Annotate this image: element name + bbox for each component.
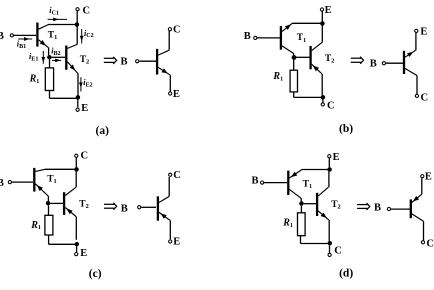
panel (a) bottom wire to E junction <box>50 97 78 99</box>
svg-text:iB2: iB2 <box>51 47 60 57</box>
node E junction (b) <box>320 21 325 26</box>
transistor T2 (d) collector diagonal <box>318 187 328 196</box>
svg-text:R1: R1 <box>282 218 293 229</box>
svg-text:(d): (d) <box>339 267 353 279</box>
equivalence arrow (d) <box>357 204 367 206</box>
svg-text:iE1: iE1 <box>29 52 38 62</box>
equivalent transistor (c) collector diagonal <box>159 196 169 202</box>
panel (c) wire junction to E terminal <box>76 247 78 253</box>
panel (a) current arrow iE1 <box>42 51 44 64</box>
equivalent transistor (d) base wire <box>391 208 410 210</box>
svg-text:E: E <box>420 26 427 37</box>
equivalent transistor (c) terminal B circle <box>138 206 141 209</box>
node E junction (a) <box>76 95 81 100</box>
resistor R1 (d) body <box>298 213 306 236</box>
panel (b) terminal C circle <box>321 103 324 106</box>
panel (d) wire E junction to T2 collector <box>328 172 330 188</box>
panel (b) bottom wire to C junction <box>294 96 323 98</box>
resistor R1 (a) body <box>45 68 53 91</box>
panel (c) wire T2 emitter to E junction <box>75 217 77 240</box>
equivalent transistor (d) emitter diagonal with arrow <box>412 194 422 202</box>
equivalent transistor (a) terminal E circle <box>169 92 172 95</box>
equivalent transistor (b) emitter diagonal with arrow <box>405 50 416 57</box>
equivalent transistor (a) base wire <box>139 60 156 62</box>
equivalent transistor (a) emitter diagonal with arrow <box>158 67 170 75</box>
equivalent transistor (b) base wire <box>386 62 403 64</box>
svg-text:E: E <box>80 248 87 259</box>
svg-text:T2: T2 <box>325 54 335 65</box>
svg-text:R1: R1 <box>30 220 41 231</box>
panel (c) wire node to T2 base <box>50 202 63 204</box>
svg-text:T2: T2 <box>80 55 90 66</box>
panel (c) wire C junction to T2 collector <box>75 172 77 188</box>
panel (c) wire T1 emitter to node <box>47 196 49 201</box>
svg-text:C: C <box>81 150 89 161</box>
svg-text:C: C <box>426 238 434 249</box>
svg-text:E: E <box>173 237 180 248</box>
svg-text:C: C <box>421 92 429 103</box>
svg-text:C: C <box>83 5 91 16</box>
node A (b) junction dot <box>292 55 297 60</box>
transistor T2 (c) emitter diagonal with arrow <box>65 207 76 216</box>
panel (b) wire T2 emitter to C junction <box>321 74 323 95</box>
svg-text:B: B <box>244 31 251 42</box>
transistor T1 (b) emitter diagonal with arrow <box>282 23 292 31</box>
transistor T2 (a) emitter diagonal with arrow <box>67 62 78 74</box>
equivalent transistor (b) terminal B circle <box>382 62 385 65</box>
transistor T2 (d) emitter diagonal with arrow <box>318 211 329 220</box>
transistor T1 (c) emitter diagonal with arrow <box>35 184 48 196</box>
svg-text:iB1: iB1 <box>17 40 26 50</box>
panel (d) top wire to E junction <box>302 169 330 171</box>
equivalent transistor (a) terminal B circle <box>136 60 139 63</box>
panel (d) bottom wire to C junction <box>301 243 330 245</box>
transistor T1 (a) collector diagonal <box>39 25 49 30</box>
svg-text:C: C <box>334 246 342 257</box>
panel (a) current arrow iB2 <box>52 59 61 61</box>
node A (c) junction dot <box>46 201 51 206</box>
svg-text:C: C <box>173 170 181 181</box>
transistor T1 (b) collector diagonal <box>282 46 293 53</box>
svg-text:B: B <box>374 203 381 214</box>
transistor T2 (a) base bar <box>65 46 67 70</box>
svg-text:iC1: iC1 <box>49 6 59 16</box>
transistor T2 (d) base bar <box>316 193 318 216</box>
equivalent transistor (c) emitter diagonal with arrow <box>159 212 171 220</box>
svg-text:T2: T2 <box>79 199 89 210</box>
transistor T2 (b) emitter diagonal with arrow <box>312 64 322 74</box>
node C junction (c) <box>74 167 79 172</box>
resistor R1 (b) body <box>290 70 297 92</box>
node E junction (d) <box>327 167 332 172</box>
transistor T1 (d) emitter diagonal with arrow <box>289 170 302 179</box>
panel (b) terminal E circle <box>320 8 323 11</box>
panel (d) wire T1 collector to node <box>300 198 302 201</box>
equivalent transistor (b) collector wire <box>416 76 418 95</box>
panel (a) current arrow iC2 <box>81 29 83 44</box>
panel (a) wire T2 emitter to E junction <box>77 74 79 96</box>
svg-text:E: E <box>333 152 340 163</box>
panel (a) top wire to C junction <box>48 24 77 26</box>
svg-text:T1: T1 <box>47 175 57 186</box>
panel (d) wire B to T1 base <box>264 182 287 184</box>
equivalent transistor (c) base wire <box>141 206 156 208</box>
panel (d) terminal C circle <box>328 253 331 256</box>
transistor T1 (d) base bar <box>287 171 289 195</box>
equivalent transistor (c) terminal C circle <box>169 173 172 176</box>
node E junction (c) <box>75 242 80 247</box>
equivalent transistor (a) collector diagonal <box>158 50 169 55</box>
equivalence arrow (c) <box>104 203 114 205</box>
svg-text:C: C <box>327 101 335 112</box>
transistor T1 (a) emitter diagonal with arrow <box>39 40 49 48</box>
svg-text:T1: T1 <box>48 31 58 42</box>
transistor T2 (a) collector diagonal <box>68 44 78 48</box>
panel (a) wire T1 emitter to node <box>48 47 50 55</box>
equivalent transistor (b) emitter wire <box>415 33 417 51</box>
node C junction (d) <box>328 241 333 246</box>
panel (d) wire junction to C terminal <box>329 245 331 253</box>
panel (b) wire node to T2 base <box>296 56 310 58</box>
svg-text:iE2: iE2 <box>83 78 92 88</box>
equivalent transistor (d) collector wire <box>423 221 425 240</box>
equivalence arrow (a) <box>104 57 114 59</box>
equivalent transistor (b) collector diagonal <box>405 68 417 75</box>
equivalent transistor (d) terminal B circle <box>387 207 390 210</box>
svg-text:E: E <box>425 171 432 182</box>
equivalent transistor (a) collector wire <box>168 31 170 50</box>
node C junction (b) <box>321 95 326 100</box>
panel (c) terminal B circle <box>8 181 11 184</box>
transistor T1 (a) base bar <box>36 23 38 47</box>
panel (b) wire junction to E terminal <box>321 11 323 21</box>
resistor R1 (a) bottom wire <box>49 91 51 99</box>
svg-text:C: C <box>173 24 181 35</box>
panel (b) wire E junction to T2 collector <box>321 26 323 43</box>
panel (a) terminal B circle <box>10 34 13 37</box>
svg-text:B: B <box>370 58 377 69</box>
svg-text:B: B <box>121 57 128 68</box>
panel (d) terminal E circle <box>328 155 331 158</box>
resistor R1 (c) bottom wire <box>48 235 50 244</box>
svg-text:(c): (c) <box>89 268 102 280</box>
resistor R1 (d) bottom wire <box>300 236 302 244</box>
panel (b) top wire to E junction <box>292 22 323 24</box>
equivalent transistor (d) base bar <box>410 199 412 218</box>
equivalent transistor (d) terminal E circle <box>421 175 424 178</box>
resistor R1 (b) top wire <box>293 59 295 70</box>
panel (a) current arrow iB1 <box>18 38 32 40</box>
svg-text:E: E <box>173 89 180 100</box>
resistor R1 (a) top wire <box>49 59 51 68</box>
svg-text:R1: R1 <box>29 74 40 85</box>
panel (b) wire junction to C terminal <box>322 100 324 103</box>
svg-text:B: B <box>121 203 128 214</box>
resistor R1 (c) body <box>45 215 53 235</box>
panel (a) terminal E circle <box>76 108 79 111</box>
svg-text:B: B <box>0 178 4 189</box>
svg-text:B: B <box>0 31 4 42</box>
resistor R1 (c) top wire <box>48 206 50 216</box>
equivalent transistor (d) collector diagonal <box>412 214 424 222</box>
equivalent transistor (d) terminal C circle <box>421 241 424 244</box>
equivalent transistor (a) terminal C circle <box>168 28 171 31</box>
panel (a) wire node to T2 base <box>52 56 66 58</box>
resistor R1 (d) top wire <box>300 206 302 213</box>
panel (c) terminal E circle <box>75 253 78 256</box>
equivalent transistor (b) base bar <box>403 51 405 74</box>
equivalent transistor (a) emitter wire <box>169 75 171 91</box>
panel (a) current arrow iE2 <box>80 77 82 91</box>
node A (d) junction dot <box>299 201 304 206</box>
svg-text:T1: T1 <box>303 180 313 191</box>
svg-text:E: E <box>325 5 332 16</box>
svg-text:(a): (a) <box>96 125 110 137</box>
svg-text:E: E <box>81 103 88 114</box>
panel (a) current arrow iC1 <box>48 18 67 20</box>
svg-text:R1: R1 <box>272 71 283 82</box>
svg-text:T1: T1 <box>297 33 307 44</box>
equivalent transistor (c) base bar <box>157 196 159 220</box>
panel (d) wire T2 emitter to C junction <box>328 220 330 241</box>
equivalent transistor (b) terminal C circle <box>415 94 418 97</box>
panel (c) wire B to T1 base <box>12 181 33 183</box>
transistor T1 (d) collector diagonal <box>289 189 301 198</box>
equivalent transistor (c) terminal E circle <box>169 240 172 243</box>
equivalent transistor (c) collector wire <box>168 177 170 196</box>
panel (c) bottom wire to E junction <box>49 243 77 245</box>
transistor T1 (c) base bar <box>33 168 35 192</box>
resistor R1 (b) bottom wire <box>293 92 295 98</box>
svg-text:T2: T2 <box>331 200 341 211</box>
node A (a) junction dot <box>47 55 52 60</box>
panel (b) terminal B circle <box>254 36 257 39</box>
panel (d) terminal B circle <box>261 181 264 184</box>
transistor T2 (c) base bar <box>63 192 65 215</box>
transistor T2 (c) collector diagonal <box>65 187 76 195</box>
panel (c) top wire to C junction <box>45 168 77 170</box>
equivalent transistor (d) emitter wire <box>421 178 423 194</box>
transistor T2 (b) collector diagonal <box>312 42 323 50</box>
equivalent transistor (a) base bar <box>156 49 158 75</box>
panel (a) wire junction to E terminal <box>77 100 79 108</box>
svg-text:iC2: iC2 <box>84 29 94 39</box>
transistor T2 (b) base bar <box>309 46 311 69</box>
panel (a) wire junction down to T2 collector <box>76 27 78 45</box>
transistor T1 (b) base bar <box>280 26 282 50</box>
node C junction (a) <box>75 22 80 27</box>
svg-text:B: B <box>252 176 259 187</box>
svg-text:(b): (b) <box>339 123 353 135</box>
panel (d) wire node to T2 base <box>304 203 316 205</box>
equivalent transistor (c) emitter wire <box>169 221 171 240</box>
equivalent transistor (b) terminal E circle <box>415 29 418 32</box>
equivalence arrow (b) <box>351 57 361 59</box>
panel (d) wire junction to E terminal <box>328 158 330 167</box>
panel (b) wire B to T1 base <box>257 37 280 39</box>
panel (a) terminal C circle <box>76 8 79 11</box>
panel (c) terminal C circle <box>75 154 78 157</box>
panel (a) wire junction to C terminal <box>76 11 78 22</box>
transistor T1 (c) collector diagonal <box>35 169 45 171</box>
panel (a) wire B to T1 base <box>14 34 36 36</box>
panel (c) wire junction to C terminal <box>75 158 77 168</box>
